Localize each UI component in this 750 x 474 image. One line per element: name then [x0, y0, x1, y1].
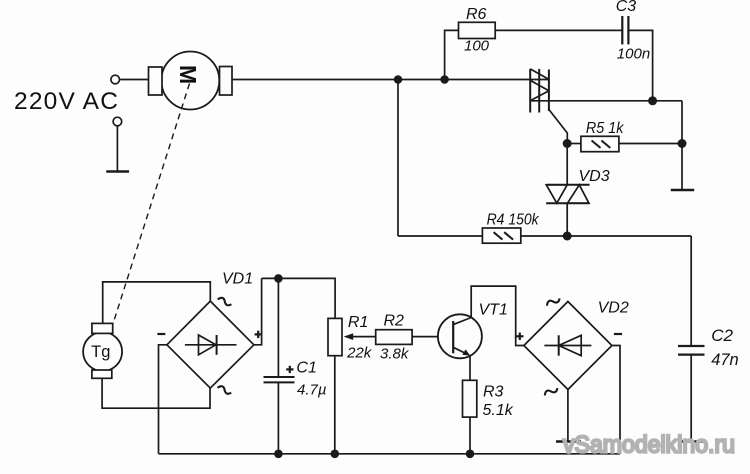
wire terminal to motor left brush — [120, 79, 149, 81]
triac bar middle — [538, 69, 540, 113]
diac VD3 triangle down — [546, 185, 567, 203]
svg-text:100n: 100n — [617, 45, 650, 62]
VD2 tilde top-left — [546, 297, 561, 307]
Tg bottom brush — [92, 370, 112, 378]
wire R6 to C3 — [495, 29, 622, 31]
wire gate node down to VD3 — [566, 144, 568, 185]
wire VT1 emitter to R3 — [469, 356, 471, 381]
svg-text:R1: R1 — [348, 314, 368, 331]
VT1 collector diagonal — [453, 318, 471, 325]
node A dot — [394, 75, 403, 84]
VD1 tilde top-right — [217, 296, 232, 306]
node R5 right dot — [678, 139, 687, 148]
svg-text:R3: R3 — [483, 384, 504, 401]
tacho Tg circle — [83, 332, 122, 371]
wire node A to R4 — [398, 235, 482, 237]
rail dot C1 — [274, 450, 283, 459]
wire C3 right down to MT1 line — [628, 30, 652, 100]
resistor R6 — [459, 22, 496, 38]
ground bar under C2 — [680, 440, 704, 443]
wire R2 to VT1 base — [412, 336, 438, 338]
VD1 inner diode triangle — [199, 335, 216, 355]
VD1 plus sign — [255, 331, 262, 338]
node B dot — [440, 75, 449, 84]
svg-text:C2: C2 — [711, 326, 733, 345]
wire motor right brush to triac — [232, 79, 549, 81]
wire right corner down to ground — [681, 101, 683, 190]
wire node A down — [397, 80, 399, 237]
VT1 base bar — [452, 321, 454, 353]
ground bar under VD2 — [556, 440, 581, 443]
capacitor C3 — [621, 16, 623, 44]
triac diagonal 1 — [530, 69, 549, 80]
ground bar lower-left — [106, 170, 129, 173]
terminal lower (neutral) — [113, 117, 122, 126]
node gate dot — [563, 139, 572, 148]
svg-text:R4 150k: R4 150k — [487, 211, 540, 228]
wire VD2 bottom to ground — [567, 390, 569, 442]
rail dot R1 — [331, 450, 340, 459]
ground bar right upper — [671, 189, 694, 192]
svg-text:C3: C3 — [616, 0, 637, 15]
svg-text:R2: R2 — [384, 312, 405, 329]
svg-text:R6: R6 — [466, 6, 487, 23]
svg-text:VD1: VD1 — [222, 271, 253, 288]
wire R1 bottom to rail — [334, 356, 336, 454]
bridge VD1 diamond — [167, 301, 254, 388]
wire C1 bottom to rail — [277, 382, 279, 453]
wire C1 top — [277, 278, 279, 377]
svg-text:22k: 22k — [346, 344, 373, 361]
VD2 plus sign — [516, 333, 523, 340]
bottom rail — [159, 453, 621, 455]
potentiometer R1 — [328, 318, 342, 355]
wire down to C2 — [690, 236, 692, 346]
wire Tg top to VD1 top corner — [103, 282, 211, 324]
wire R5 to right node — [619, 143, 682, 145]
wire VD1 minus to bottom rail — [159, 345, 167, 454]
rail dot R3 — [466, 450, 475, 459]
wire R4 to C2 branch — [521, 235, 691, 237]
motor left brush — [149, 67, 163, 95]
svg-text:100: 100 — [464, 38, 490, 55]
wire gate node to R5 — [567, 143, 581, 145]
triac diagonal 3 — [530, 91, 549, 101]
svg-text:VD3: VD3 — [579, 168, 610, 185]
svg-text:47n: 47n — [711, 351, 739, 369]
wire terminal lower down — [116, 126, 118, 172]
triac gate lead — [549, 110, 567, 144]
VD1 tilde bottom-right — [217, 385, 232, 395]
wire VD1 plus up to top rail — [254, 278, 262, 344]
triac VS1 bar left — [529, 69, 531, 113]
node VD3 bottom dot — [563, 232, 572, 241]
VD1 minus sign — [157, 333, 165, 335]
VD2 minus sign — [614, 333, 622, 335]
svg-text:Tg: Tg — [91, 343, 110, 361]
VD2 inner diode triangle — [559, 335, 582, 355]
dashed shaft link motor to tacho — [108, 84, 190, 342]
diac VD3 top bar — [546, 184, 590, 186]
capacitor C1 — [264, 376, 295, 378]
triac bar right — [548, 70, 550, 112]
motor right brush — [220, 67, 233, 96]
R1 wiper arrow — [351, 336, 376, 338]
wire node B up to R6 — [445, 30, 459, 79]
svg-text:4.7µ: 4.7µ — [297, 382, 327, 399]
terminal upper (phase) — [111, 75, 120, 84]
resistor R5 — [581, 136, 619, 151]
node C1 top dot — [274, 274, 283, 283]
svg-text:3.8k: 3.8k — [380, 345, 410, 362]
VD2 inner diode line — [544, 345, 591, 347]
R5 slash marks — [592, 141, 601, 148]
top rail to R1 — [262, 278, 336, 318]
VD2 inner diode cathode bar — [558, 335, 560, 355]
svg-text:VD2: VD2 — [598, 300, 629, 317]
wire C2 down to ground — [690, 355, 692, 442]
R4 slash marks — [494, 232, 503, 239]
transistor VT1 circle — [438, 314, 482, 358]
triac diagonal 2 — [530, 80, 549, 90]
motor M circle — [161, 52, 219, 110]
wire MT1 to right corner — [530, 100, 682, 102]
svg-text:5.1k: 5.1k — [483, 402, 514, 419]
VD1 inner diode cathode bar — [216, 335, 218, 355]
svg-text:VT1: VT1 — [479, 302, 508, 319]
wire VT1 collector to VD2 plus — [471, 286, 524, 345]
svg-text:R5 1k: R5 1k — [586, 120, 624, 137]
resistor R2 — [376, 330, 412, 345]
VD1 inner diode line — [185, 344, 237, 346]
resistor R4 — [482, 228, 520, 243]
resistor R3 — [463, 380, 477, 417]
diac VD3 triangle up — [568, 185, 589, 203]
VD2 tilde bottom-left — [543, 386, 558, 396]
wire VD3 down to node — [566, 203, 568, 236]
diac VD3 bottom bar — [546, 202, 590, 204]
svg-text:220V AC: 220V AC — [14, 88, 119, 115]
svg-text:C1: C1 — [296, 360, 316, 377]
VT1 emitter diagonal with arrow — [453, 347, 468, 354]
wire R3 to rail — [469, 417, 471, 454]
capacitor C2 — [678, 345, 705, 347]
bridge VD2 diamond — [524, 302, 612, 390]
Tg top brush — [92, 323, 113, 333]
node C3 dot — [648, 96, 657, 105]
C1 plus sign — [286, 366, 293, 373]
wire Tg bottom to VD1 bottom corner — [102, 378, 210, 408]
svg-text:vSamodelkino.ru: vSamodelkino.ru — [563, 432, 735, 459]
svg-text:M: M — [175, 65, 201, 84]
wire VD2 minus to rail corner — [612, 346, 620, 454]
